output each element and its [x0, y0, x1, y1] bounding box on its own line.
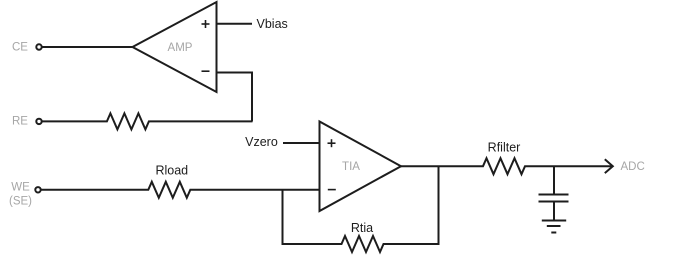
svg-text:WE: WE: [11, 181, 30, 193]
svg-text:RE: RE: [12, 115, 28, 127]
svg-text:(SE): (SE): [9, 195, 32, 207]
svg-text:Vbias: Vbias: [257, 17, 288, 31]
svg-text:Rfilter: Rfilter: [488, 141, 521, 155]
svg-text:ADC: ADC: [621, 161, 645, 173]
svg-text:TIA: TIA: [342, 161, 360, 173]
svg-text:Vzero: Vzero: [245, 135, 278, 149]
svg-text:AMP: AMP: [168, 42, 193, 54]
svg-text:Rload: Rload: [155, 164, 188, 178]
svg-text:CE: CE: [12, 41, 28, 53]
svg-text:Rtia: Rtia: [351, 221, 373, 235]
